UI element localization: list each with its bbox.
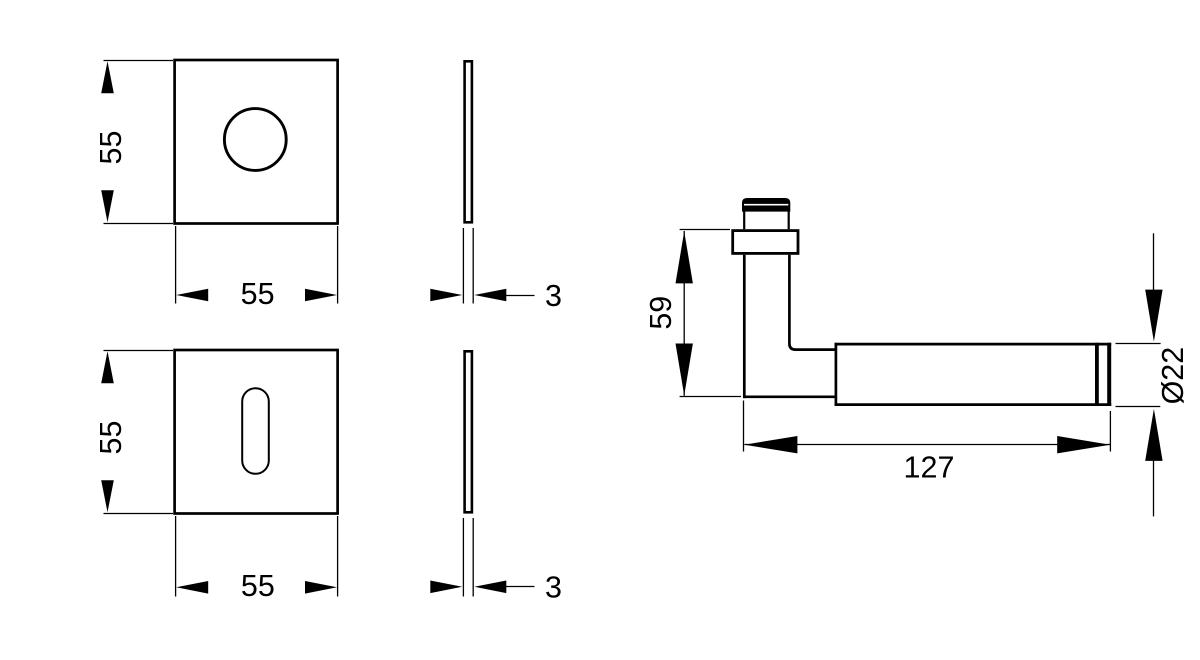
svg-text:55: 55 bbox=[241, 277, 275, 311]
svg-text:Ø22: Ø22 bbox=[1156, 347, 1190, 405]
svg-text:3: 3 bbox=[545, 279, 562, 313]
svg-text:59: 59 bbox=[644, 296, 678, 330]
svg-text:55: 55 bbox=[241, 569, 275, 603]
svg-text:55: 55 bbox=[94, 131, 128, 165]
svg-text:3: 3 bbox=[545, 571, 562, 605]
svg-text:127: 127 bbox=[904, 450, 955, 484]
svg-text:55: 55 bbox=[94, 421, 128, 455]
